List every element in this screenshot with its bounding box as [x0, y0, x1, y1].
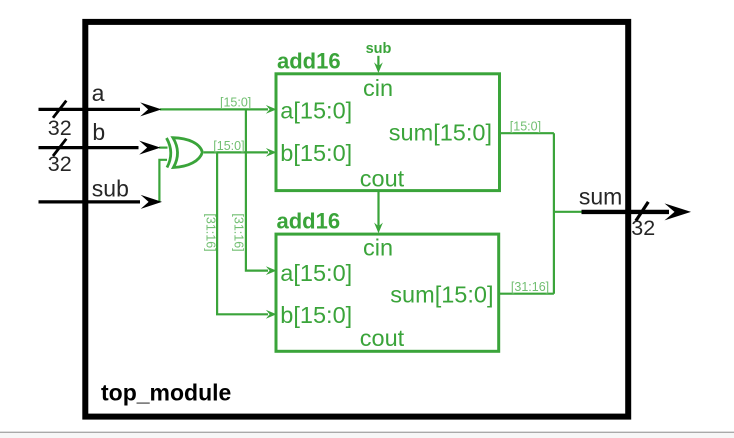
svg-text:a: a: [92, 80, 105, 106]
svg-text:32: 32: [48, 152, 72, 176]
svg-text:cin: cin: [363, 75, 393, 101]
svg-text:add16: add16: [277, 49, 341, 74]
svg-text:[15:0]: [15:0]: [213, 139, 244, 153]
svg-text:[31:16]: [31:16]: [203, 213, 217, 251]
svg-text:32: 32: [631, 216, 655, 240]
svg-text:sub: sub: [366, 41, 392, 57]
svg-text:b: b: [92, 119, 105, 145]
svg-text:top_module: top_module: [101, 379, 231, 405]
svg-text:add16: add16: [277, 209, 341, 234]
svg-text:[15:0]: [15:0]: [510, 119, 541, 133]
svg-text:sum: sum: [579, 184, 622, 210]
svg-text:cout: cout: [360, 166, 405, 192]
svg-text:[31:16]: [31:16]: [231, 213, 245, 251]
svg-text:cout: cout: [360, 325, 405, 351]
svg-text:cin: cin: [363, 235, 393, 261]
svg-text:a[15:0]: a[15:0]: [280, 98, 352, 124]
svg-text:[15:0]: [15:0]: [220, 95, 251, 109]
svg-text:sum[15:0]: sum[15:0]: [389, 120, 492, 146]
svg-text:sub: sub: [92, 175, 129, 201]
svg-text:a[15:0]: a[15:0]: [280, 260, 352, 286]
svg-text:32: 32: [48, 116, 72, 140]
svg-text:[31:16]: [31:16]: [511, 280, 549, 294]
svg-text:sum[15:0]: sum[15:0]: [390, 281, 493, 307]
svg-text:b[15:0]: b[15:0]: [280, 140, 352, 166]
svg-text:b[15:0]: b[15:0]: [280, 302, 352, 328]
